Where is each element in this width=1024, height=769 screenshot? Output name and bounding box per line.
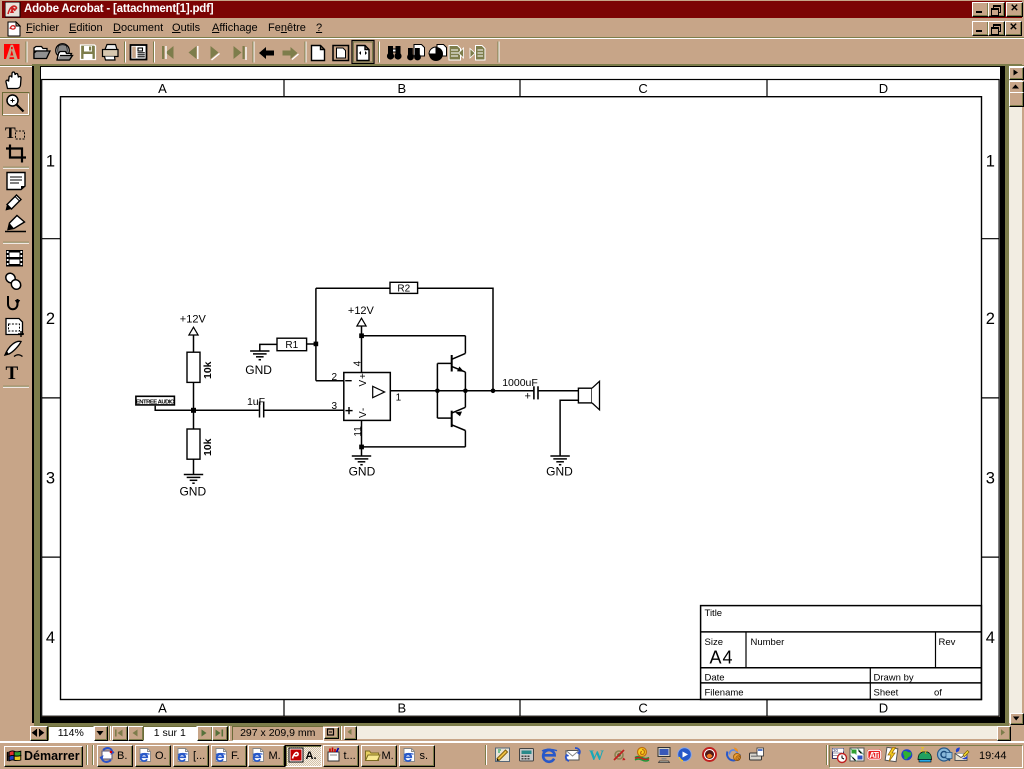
fit in window [333,46,349,61]
junction (feedback tap) [491,389,496,394]
ground (speaker) [550,456,569,465]
taskbar icons overlay [0,742,1024,768]
transistor Q2 base wire [437,417,451,419]
text select tool [5,125,25,142]
power +12V (left) symbol [189,327,198,335]
save (disabled olive diskette) [81,45,96,60]
svg-text:A: A [158,81,167,96]
svg-text:C: C [638,701,647,716]
capacitor 1uF [260,402,264,418]
wire (output) [390,390,534,392]
horizontal scrollbar [355,726,997,739]
svg-text:GND: GND [179,484,206,498]
zoom tool (pressed) [3,93,30,116]
op-amp triangle [373,386,385,397]
ground (R1) [250,351,269,360]
wire (pin 11 to ground rail) [361,420,363,447]
notes tool [7,173,25,190]
wire (base link) [436,363,438,418]
transistor Q2 [452,407,466,430]
article tool [8,296,18,309]
search [407,45,424,61]
go forward (disabled) [283,47,299,60]
svg-text:4: 4 [352,360,363,366]
svg-text:Size: Size [705,637,723,648]
movie tool [6,250,23,267]
svg-text:GND: GND [245,363,272,377]
wire [193,335,195,352]
svg-text:Title: Title [705,608,723,619]
svg-text:B: B [397,701,406,716]
svg-text:10k: 10k [202,438,214,456]
wire [307,343,316,345]
svg-text:1uF: 1uF [247,396,265,408]
svg-text:Number: Number [751,637,785,648]
acrobat logo button [4,44,20,59]
wire (top rail) [362,335,466,337]
junction (R1/feedback) [314,342,319,347]
svg-text:4: 4 [986,629,995,647]
op-amp plus marker [345,407,352,414]
system tray [826,745,828,765]
svg-text:A: A [158,701,167,716]
actual size [312,46,325,61]
op-amp U1 body [344,373,391,421]
svg-text:Drawn by: Drawn by [874,672,914,683]
wire (feedback vertical) [315,288,317,381]
next highlight (disabled) [470,46,485,61]
resistor R2 [390,282,418,293]
svg-text:R2: R2 [397,283,410,294]
svg-text:1: 1 [46,153,55,171]
quick launch icons [496,748,510,762]
find binoculars [387,46,402,60]
speaker LS1 [578,381,599,410]
svg-text:Filename: Filename [705,688,744,699]
wire [260,344,277,351]
svg-text:3: 3 [332,401,338,412]
hand tool [6,72,21,89]
crop tool [6,145,26,163]
transistor Q1 base wire [437,362,451,364]
svg-text:GND: GND [546,465,573,479]
svg-text:C: C [638,81,647,96]
window buttons [972,2,989,17]
wire (to op-amp pin 3) [264,409,344,411]
wire [193,459,195,474]
wire [538,390,578,392]
open folder [34,47,50,59]
navigation pane toggle [131,45,147,60]
wire (collector rail top) [464,336,466,354]
svg-text:GND: GND [349,465,376,479]
transistor Q1 [452,353,466,372]
svg-text:4: 4 [46,629,55,647]
svg-text:ATi: ATi [869,751,879,760]
svg-text:1000uF: 1000uF [502,377,538,389]
open web page [56,44,73,60]
svg-text:1: 1 [986,153,995,171]
svg-text:2: 2 [46,310,55,328]
svg-text:+: + [525,391,531,403]
svg-text:@: @ [735,756,741,762]
svg-text:D: D [879,81,888,96]
wire (speaker return) [560,400,578,456]
svg-text:30: 30 [833,748,839,753]
capacitor 1000uF [534,386,538,399]
svg-text:V+: V+ [358,372,369,386]
resistor 10k (upper divider) [187,352,200,382]
fit width (pressed) [352,41,374,64]
first page [162,46,174,59]
resistor 10k (lower divider) [187,429,200,459]
print [103,45,119,61]
wire (pin 4 supply) [361,326,363,373]
wire (stub to ground) [361,447,363,456]
svg-text:Rev: Rev [939,637,956,648]
wire (collector rail bottom) [464,431,466,447]
highlight tool [5,216,26,232]
catalog pie [429,45,447,62]
previous highlight (disabled) [449,46,464,61]
junction (bases) [435,389,440,394]
wire [316,287,390,289]
svg-text:Date: Date [705,672,725,683]
junction (ground rail) [359,445,364,450]
ground (op-amp) [352,456,371,465]
resistor R1 [277,338,307,351]
svg-text:1: 1 [396,392,402,403]
svg-text:2: 2 [986,310,995,328]
title block [701,606,982,700]
child window buttons [972,21,989,36]
svg-text:R1: R1 [285,340,298,351]
svg-text:3: 3 [46,470,55,488]
node junction (divider mid-point) [191,408,196,413]
svg-text:T: T [6,363,19,384]
svg-text:V-: V- [358,407,369,418]
next page [211,46,220,60]
svg-text:Sheet: Sheet [874,688,899,699]
junction (emitters) [463,389,468,394]
svg-text:W: W [589,748,604,764]
wire [193,382,195,429]
svg-text:T: T [5,125,16,142]
app icon [5,2,21,18]
svg-text:+12V: +12V [180,314,207,326]
wire (pin 2) [316,380,344,382]
net label ENTREE AUDIO [136,396,175,405]
signature tool [5,341,23,356]
wire [155,406,259,411]
prev page [189,46,198,59]
svg-text:3: 3 [986,470,995,488]
svg-text:D: D [879,701,888,716]
junction (supply rail) [359,333,364,338]
doc icon [6,21,22,37]
power +12V (op-amp) symbol [357,318,366,326]
wire (emitter rail) [464,372,466,407]
wire (bottom rail) [362,446,466,448]
task button icons [100,748,114,762]
link tool [4,271,23,291]
last page [234,46,247,60]
form tool [6,319,24,338]
ground (divider) [184,475,203,484]
svg-text:ENTREE AUDIO: ENTREE AUDIO [136,400,175,406]
task buttons [97,745,133,768]
pencil tool [6,195,22,211]
wire [418,288,493,391]
tray icons [833,748,847,763]
svg-text:of: of [934,688,942,699]
go back [259,47,274,59]
op-amp minus marker [345,380,352,382]
svg-text:+12V: +12V [348,305,375,317]
svg-text:10k: 10k [202,361,214,379]
svg-text:B: B [397,81,406,96]
svg-text:A4: A4 [710,647,734,667]
